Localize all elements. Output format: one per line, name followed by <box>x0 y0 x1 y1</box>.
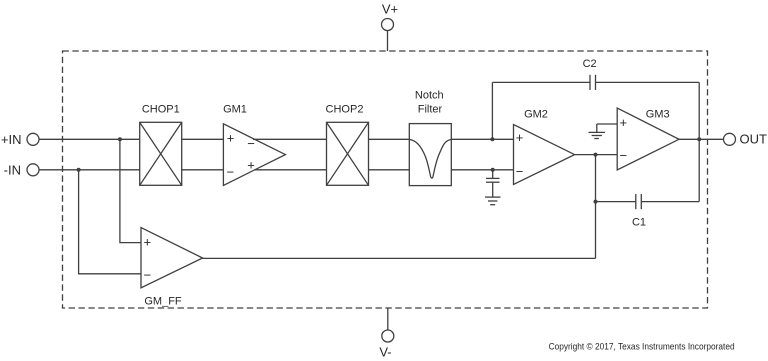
op-amp GM3 <box>617 108 679 170</box>
dashed supply boundary box <box>63 51 708 308</box>
wire GM_FF output to C1 node <box>203 257 596 259</box>
wire C1 right segment <box>641 201 699 203</box>
svg-text:+: + <box>516 130 524 145</box>
wire shunt capacitor stub <box>492 170 494 179</box>
terminal OUT <box>724 133 736 145</box>
svg-text:−: − <box>620 148 628 163</box>
svg-text:Filter: Filter <box>418 104 443 116</box>
svg-text:−: − <box>516 164 524 179</box>
svg-text:GM2: GM2 <box>524 109 548 121</box>
wire -IN branch to GM_FF <box>79 170 141 274</box>
ground (GM3 non-inverting input) <box>589 124 618 139</box>
svg-text:+IN: +IN <box>1 132 22 147</box>
svg-text:C2: C2 <box>583 58 597 70</box>
wire GM1 to CHOP2 bottom <box>254 169 326 171</box>
wire C2 left segment <box>492 81 590 83</box>
node +IN branch <box>118 137 122 141</box>
wire GM3 output to OUT <box>679 138 724 140</box>
svg-text:−: − <box>144 268 152 283</box>
notch filter block <box>409 124 451 186</box>
terminal -IN <box>27 164 39 176</box>
ground (shunt capacitor) <box>485 197 501 205</box>
wire C1 left segment <box>596 201 636 203</box>
terminal +IN <box>27 133 39 145</box>
svg-text:+: + <box>144 234 152 249</box>
node output <box>697 137 701 141</box>
svg-text:GM1: GM1 <box>223 103 247 115</box>
svg-text:−: − <box>227 165 235 180</box>
terminal V- <box>382 308 394 342</box>
svg-text:GM_FF: GM_FF <box>144 296 182 308</box>
wire +IN branch to GM_FF <box>120 139 141 242</box>
svg-text:−: − <box>247 136 255 151</box>
wire C1 to output node vertical <box>698 139 700 201</box>
wire -IN to CHOP1 <box>39 169 140 171</box>
shunt capacitor <box>486 178 500 197</box>
node top wire / C2 branch <box>490 137 494 141</box>
capacitor C1 <box>636 194 642 209</box>
svg-text:GM3: GM3 <box>646 109 670 121</box>
chopper CHOP1 <box>140 122 182 185</box>
op-amp GM2 <box>514 125 575 185</box>
node bottom wire / shunt capacitor branch <box>491 168 495 172</box>
wire GM2 output to GM3 inverting input <box>575 154 618 156</box>
svg-text:+: + <box>247 158 255 173</box>
svg-text:CHOP1: CHOP1 <box>142 103 180 115</box>
node -IN branch <box>77 168 81 172</box>
terminal V+ <box>382 19 394 52</box>
capacitor C2 <box>590 75 596 90</box>
wire CHOP2 to notch filter top <box>369 138 410 140</box>
wire C1 branch vertical from GM2 output <box>595 155 597 259</box>
wire notch filter to GM2 bottom <box>451 169 514 171</box>
wire C2 right segment <box>596 81 700 83</box>
wire notch filter to GM2 top <box>451 138 514 140</box>
node C1 left <box>594 200 598 204</box>
svg-text:+: + <box>227 130 235 145</box>
chopper CHOP2 <box>327 122 369 185</box>
svg-text:+: + <box>620 115 628 130</box>
svg-text:C1: C1 <box>632 216 646 228</box>
svg-text:CHOP2: CHOP2 <box>326 103 364 115</box>
wire C2 to output node vertical <box>698 82 700 139</box>
node GM2 output <box>594 153 598 157</box>
svg-text:V+: V+ <box>382 2 398 17</box>
op-amp GM_FF <box>141 228 203 288</box>
wire CHOP1 to GM1 bottom <box>182 169 224 171</box>
wire +IN to CHOP1 <box>39 138 140 140</box>
svg-text:V-: V- <box>379 345 391 360</box>
op-amp GM1 <box>223 124 285 186</box>
wire CHOP1 to GM1 top <box>182 138 224 140</box>
label Notch Filter <box>415 90 444 116</box>
svg-text:-IN: -IN <box>4 163 21 178</box>
svg-text:Notch: Notch <box>415 90 444 102</box>
wire C2 branch vertical up <box>491 82 493 139</box>
svg-text:Copyright © 2017, Texas Instru: Copyright © 2017, Texas Instruments Inco… <box>549 342 735 353</box>
wire CHOP2 to notch filter bottom <box>369 169 410 171</box>
wire GM1 to CHOP2 top <box>253 138 327 140</box>
svg-text:OUT: OUT <box>740 132 768 147</box>
